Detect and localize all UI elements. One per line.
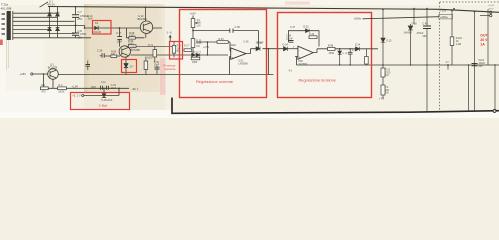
svg-text:100uF: 100uF [479,63,486,65]
red text R sensor corrente [164,63,176,71]
transistor Q8 [119,46,130,59]
svg-text:D.13: D.13 [343,53,348,55]
diode D1d [56,28,60,31]
svg-text:R.2: R.2 [59,84,64,87]
connector arrow 1-6 [167,32,173,42]
diode D23 [306,29,310,33]
diode D24 input [284,47,288,51]
output terminal circle [493,109,496,112]
resistor R49 [328,44,336,55]
svg-text:C.7: C.7 [78,10,83,14]
feedback loop box2 [288,31,319,47]
wire drop between boxes [267,49,269,75]
svg-text:20 V: 20 V [480,38,488,42]
wire mid y28 [85,27,163,29]
+18V terminal left [20,72,48,88]
wire y65 rail [297,64,499,66]
svg-text:D.21: D.21 [257,41,263,44]
wire drops to ground rail [469,65,496,112]
wire C7 vertical [75,7,77,38]
node C17 junction [119,27,121,29]
transistor Q10 [140,21,152,33]
capacitor C19 row [91,82,120,90]
capacitor C104 [472,60,486,68]
resistor R27 [184,44,192,51]
svg-text:D.16 D.17: D.16 D.17 [191,52,202,54]
svg-text:1N4148: 1N4148 [404,33,413,35]
svg-text:10uF: 10uF [111,87,117,90]
svg-text:D.18: D.18 [412,23,418,26]
wire R68 drop [127,28,145,38]
svg-text:C.10: C.10 [88,16,94,18]
wire y74.5 rail [58,74,273,76]
junction dots rail65 [339,64,475,65]
wire P1-R30 [192,28,194,39]
red text OUT [480,34,488,47]
svg-text:D.14: D.14 [355,44,361,47]
svg-text:OUT: OUT [480,34,488,38]
resistor R72 vertical [144,57,153,75]
diode D16 [192,53,195,57]
resistor R1 [40,84,48,94]
diode D1a [48,13,52,16]
transformer primary stubs [2,14,6,34]
svg-text:401.008: 401.008 [1,7,12,11]
diode D14 [356,47,360,51]
op-amp U3C [231,48,248,65]
resistor R75 sensor [172,42,181,58]
svg-text:R.71: R.71 [148,44,154,47]
svg-text:C.36: C.36 [244,41,250,43]
wire secondary 3 [13,20,75,22]
svg-text:+20Va: +20Va [354,17,362,21]
svg-text:Regolazione corrente: Regolazione corrente [196,79,233,84]
svg-text:R.33: R.33 [219,38,225,41]
resistor R26 [191,57,200,60]
diode D21 [256,47,260,51]
page margin lines [6,40,8,70]
capacitor C39 [348,49,358,65]
svg-text:+18V: +18V [190,12,197,16]
feedback loop box1 [193,31,259,49]
capacitor C7 [72,15,79,35]
pink smear [160,58,166,95]
svg-text:OV 2: OV 2 [489,9,495,11]
svg-text:+: + [232,56,234,60]
svg-text:25V: 25V [78,17,83,21]
output wire U3C [246,49,284,54]
svg-text:D.24: D.24 [283,43,289,46]
wire Q10 bottom [145,33,147,38]
svg-text:V Ref: V Ref [99,104,107,108]
capacitor C43 [417,9,432,112]
wire secondary 1 [13,12,58,14]
svg-text:+18V: +18V [20,72,27,76]
capacitor C18 [154,61,160,75]
resistor R71 vertical [148,44,157,62]
svg-text:LIN: LIN [197,24,201,27]
output wire U3D to R49 [313,49,327,53]
svg-text:BC107B: BC107B [48,66,58,69]
wire +20Va [363,17,439,19]
capacitor C38 [286,35,294,43]
wire U3D+ [295,57,298,66]
zener D7 [124,59,134,75]
top rail +V [48,7,499,13]
connector labels right edge [489,5,495,10]
transistor Q1 [48,69,59,89]
svg-text:+5, 2 V: +5, 2 V [72,94,81,98]
potentiometer P1 [191,19,201,28]
resistor R48 [309,33,317,39]
svg-text:-: - [232,49,233,53]
annotation leader to D1 [40,2,49,7]
svg-text:C.17: C.17 [116,32,122,35]
wire after R49 [335,48,378,50]
svg-text:TL431ACZ: TL431ACZ [101,99,113,102]
svg-text:C104: C104 [479,60,485,62]
svg-text:R.6B: R.6B [328,44,334,47]
beige scan band [84,4,165,92]
svg-text:10uF: 10uF [117,40,123,43]
wire opamp+ to rail [230,57,231,75]
diode D1b [56,13,60,16]
resistor R69 [126,40,174,48]
svg-text:1000: 1000 [91,86,97,89]
svg-text:+20Va: +20Va [440,15,448,19]
resistor R52 [381,65,391,85]
svg-text:+1,5V: +1,5V [203,47,210,49]
svg-text:BD240A: BD240A [138,18,148,21]
diode D4 [93,21,102,34]
svg-text:5K36: 5K36 [59,91,65,94]
U2 TL431 [101,94,113,102]
wire x474 [474,12,476,112]
svg-text:1K06: 1K06 [328,52,334,55]
resistor R2 [58,84,67,94]
diode D15 column [382,9,384,65]
svg-text:+ P3: + P3 [379,98,385,101]
bridge D1 left column [49,7,51,38]
ground return corner [172,98,499,114]
+20Va label boxed [439,14,453,19]
diode D13 down [338,51,342,54]
capacitor C8 [72,33,79,35]
resistor R68 [129,32,136,39]
red box D (zener) [122,60,137,73]
resistor R33 [217,38,228,43]
resistor R30 [191,39,202,48]
svg-text:-: - [299,48,300,52]
wire y88 [40,87,129,89]
red box A (D4) [93,21,112,35]
svg-text:D4: D4 [95,21,99,25]
resistor R50 [365,49,369,65]
red box F (V Ref) [71,93,130,110]
svg-text:Regolazione tensione: Regolazione tensione [299,77,336,82]
svg-text:LM358N: LM358N [298,63,308,66]
red margin mark [0,40,3,46]
svg-text:C.37: C.37 [290,26,296,29]
capacitor C28 [97,50,105,58]
svg-text:1000: 1000 [147,57,153,60]
svg-text:+20V: +20V [440,9,447,13]
svg-text:C.43: C.43 [423,23,429,26]
wire vref [84,88,119,95]
svg-text:corrente: corrente [165,67,176,71]
svg-text:LM358N: LM358N [238,62,248,65]
wire secondary 6 [13,33,75,35]
potentiometer P2 [379,85,390,101]
svg-text:25V: 25V [78,35,83,39]
svg-text:1K: 1K [456,41,459,43]
svg-text:4RL04: 4RL04 [47,3,55,7]
red box E (R sensor) [170,42,183,60]
resistor R83 [111,51,117,58]
bridge diodes [48,13,60,31]
node band-edge junction [84,27,86,29]
diode D17 [196,53,199,57]
svg-text:C.11: C.11 [101,82,106,84]
svg-text:1A: 1A [480,42,485,46]
svg-text:470: 470 [41,91,46,94]
wire secondary 4 [13,25,85,28]
svg-text:R.1: R.1 [41,84,46,87]
wire secondary 5 [13,28,50,30]
wire secondary 2 [13,16,58,18]
svg-text:R.27: R.27 [184,44,190,47]
capacitor C10 band edge [86,61,91,71]
wire C17 drop [119,28,121,47]
svg-text:D7: D7 [130,64,134,68]
dashed connector boundary [440,2,499,110]
diode D1c [48,28,52,31]
svg-text:D.23: D.23 [304,26,310,29]
diode D18 [404,9,418,65]
svg-text:BC546B: BC546B [131,49,141,52]
svg-text:100nF: 100nF [286,37,293,40]
svg-text:+1,8V: +1,8V [72,86,79,89]
svg-text:R.48: R.48 [309,33,315,36]
capacitor C35 [230,26,241,33]
svg-text:D.15: D.15 [387,41,393,43]
svg-text:1 - 6: 1 - 6 [167,32,173,35]
red box B (Regolazione corrente) [180,10,267,98]
svg-text:1-2W: 1-2W [456,44,462,46]
svg-text:100pF: 100pF [230,45,237,47]
wire secondary 7 [13,37,91,39]
red box C (Regolazione tensione) [278,13,372,98]
svg-text:C.28: C.28 [97,50,103,53]
capacitor C17 [116,32,123,43]
wire y55 rail [105,55,229,56]
svg-text:C.35: C.35 [235,26,241,29]
svg-text:1000: 1000 [192,62,198,64]
op-amp U3D [293,46,313,66]
svg-text:C+12: C+12 [489,5,495,7]
svg-text:R.201: R.201 [456,38,463,40]
transformer T1 core [12,11,14,40]
wire junction R33 [206,42,208,55]
bridge D1 right column [57,7,59,38]
lighter interiors of annotation boxes [180,10,266,97]
wire Q10 base top [145,7,147,21]
wire x488 [487,9,489,65]
resistor R73 [450,11,462,66]
svg-text:+BC 4.: +BC 4. [132,88,140,91]
svg-text:25V: 25V [423,35,428,38]
svg-text:+: + [299,55,301,59]
junction dots top rail [75,6,476,26]
wire R33 input [196,42,231,51]
svg-text:25V: 25V [479,66,484,68]
